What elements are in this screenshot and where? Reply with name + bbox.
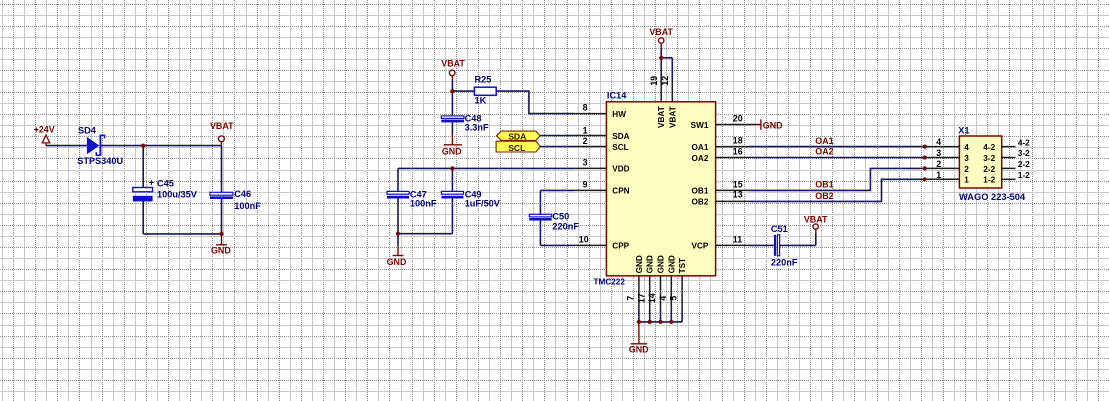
svg-text:SCL: SCL bbox=[612, 143, 628, 152]
svg-text:OB1: OB1 bbox=[692, 187, 709, 196]
svg-text:16: 16 bbox=[733, 146, 743, 156]
svg-text:VBAT: VBAT bbox=[804, 214, 828, 224]
svg-text:11: 11 bbox=[733, 234, 742, 244]
svg-text:220nF: 220nF bbox=[552, 221, 579, 231]
svg-text:20: 20 bbox=[733, 114, 743, 124]
svg-text:3.3nF: 3.3nF bbox=[465, 122, 489, 132]
svg-text:13: 13 bbox=[733, 190, 743, 200]
svg-text:GND: GND bbox=[442, 146, 462, 156]
svg-text:VBAT: VBAT bbox=[668, 106, 677, 128]
svg-text:SCL: SCL bbox=[508, 143, 525, 153]
svg-text:8: 8 bbox=[583, 102, 588, 112]
svg-text:X1: X1 bbox=[958, 126, 969, 136]
svg-text:1uF/50V: 1uF/50V bbox=[465, 199, 501, 209]
svg-text:1-2: 1-2 bbox=[983, 176, 995, 185]
svg-text:3: 3 bbox=[583, 157, 588, 167]
svg-text:17: 17 bbox=[636, 293, 646, 303]
svg-text:C50: C50 bbox=[552, 211, 569, 221]
svg-text:TST: TST bbox=[678, 258, 687, 273]
svg-text:GND: GND bbox=[629, 344, 649, 354]
svg-text:4-2: 4-2 bbox=[983, 143, 995, 152]
svg-text:GND: GND bbox=[763, 120, 783, 130]
svg-text:220nF: 220nF bbox=[771, 258, 798, 268]
svg-text:VBAT: VBAT bbox=[441, 58, 465, 68]
svg-text:GND: GND bbox=[657, 255, 666, 273]
svg-text:10: 10 bbox=[579, 234, 589, 244]
svg-text:SDA: SDA bbox=[612, 132, 629, 141]
svg-text:4: 4 bbox=[658, 296, 668, 301]
svg-text:OA2: OA2 bbox=[692, 154, 709, 163]
svg-text:1K: 1K bbox=[475, 96, 487, 106]
svg-text:OA1: OA1 bbox=[692, 143, 709, 152]
svg-text:19: 19 bbox=[649, 76, 659, 86]
svg-text:3-2: 3-2 bbox=[983, 154, 995, 163]
svg-text:OA2: OA2 bbox=[815, 147, 833, 157]
svg-text:1: 1 bbox=[583, 125, 588, 135]
svg-text:100nF: 100nF bbox=[234, 201, 261, 211]
svg-text:GND: GND bbox=[211, 246, 231, 256]
svg-text:SDA: SDA bbox=[508, 132, 526, 142]
svg-text:C46: C46 bbox=[234, 189, 251, 199]
svg-text:VBAT: VBAT bbox=[210, 121, 234, 131]
svg-text:1-2: 1-2 bbox=[1018, 171, 1030, 180]
svg-text:VCP: VCP bbox=[692, 242, 709, 251]
svg-text:C45: C45 bbox=[157, 179, 174, 189]
svg-text:3: 3 bbox=[936, 148, 941, 158]
svg-text:GND: GND bbox=[387, 257, 407, 267]
svg-text:C51: C51 bbox=[771, 224, 788, 234]
svg-text:2: 2 bbox=[964, 165, 969, 174]
svg-text:3-2: 3-2 bbox=[1018, 149, 1030, 158]
svg-text:IC14: IC14 bbox=[607, 91, 627, 101]
svg-text:TMC222: TMC222 bbox=[594, 278, 626, 287]
svg-text:18: 18 bbox=[733, 136, 743, 146]
svg-text:100nF: 100nF bbox=[410, 199, 437, 209]
svg-text:SD4: SD4 bbox=[78, 125, 97, 135]
svg-text:OB2: OB2 bbox=[692, 198, 709, 207]
svg-text:4-2: 4-2 bbox=[1018, 138, 1030, 147]
svg-text:HW: HW bbox=[612, 110, 626, 119]
svg-text:3: 3 bbox=[964, 154, 969, 163]
svg-text:2-2: 2-2 bbox=[983, 165, 995, 174]
svg-text:4: 4 bbox=[964, 143, 969, 152]
svg-text:CPP: CPP bbox=[612, 242, 629, 251]
svg-text:2: 2 bbox=[936, 159, 941, 169]
svg-text:VDD: VDD bbox=[612, 165, 629, 174]
svg-text:12: 12 bbox=[660, 76, 670, 86]
svg-text:GND: GND bbox=[646, 255, 655, 273]
svg-text:14: 14 bbox=[647, 293, 657, 303]
svg-text:OB1: OB1 bbox=[815, 180, 833, 190]
svg-text:OA1: OA1 bbox=[815, 136, 833, 146]
svg-text:VBAT: VBAT bbox=[649, 27, 673, 37]
svg-text:WAGO 223-504: WAGO 223-504 bbox=[959, 192, 1026, 202]
svg-text:15: 15 bbox=[733, 179, 743, 189]
svg-text:2: 2 bbox=[583, 136, 588, 146]
svg-text:+24V: +24V bbox=[34, 125, 55, 135]
svg-text:9: 9 bbox=[583, 180, 588, 190]
svg-text:GND: GND bbox=[635, 255, 644, 273]
svg-text:VBAT: VBAT bbox=[657, 106, 666, 128]
svg-text:2-2: 2-2 bbox=[1018, 160, 1030, 169]
svg-text:100u/35V: 100u/35V bbox=[157, 189, 198, 199]
svg-text:OB2: OB2 bbox=[815, 191, 833, 201]
svg-text:SW1: SW1 bbox=[691, 121, 709, 130]
svg-text:1: 1 bbox=[936, 170, 941, 180]
svg-text:1: 1 bbox=[964, 176, 969, 185]
svg-text:R25: R25 bbox=[475, 75, 492, 85]
svg-text:5: 5 bbox=[669, 296, 679, 301]
svg-text:GND: GND bbox=[667, 255, 676, 273]
svg-text:STPS340U: STPS340U bbox=[77, 156, 123, 166]
svg-text:+: + bbox=[149, 177, 154, 187]
svg-text:7: 7 bbox=[626, 296, 636, 301]
svg-text:4: 4 bbox=[936, 137, 941, 147]
svg-text:CPN: CPN bbox=[612, 187, 629, 196]
